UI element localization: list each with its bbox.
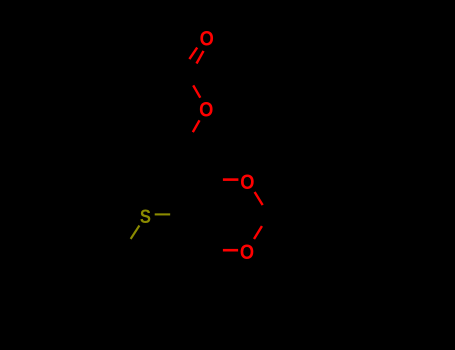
carbonyl C=O double bond, red oxygen halves [189, 48, 197, 60]
bond S-C5, black carbon half [170, 213, 188, 216]
carbonyl C=O double bond, black carbon halves [183, 59, 190, 69]
ring bond C6-O, red oxygen half [223, 249, 238, 252]
ester bond C(=O)-O, red oxygen half [193, 85, 200, 97]
acetyl methyl bond (black, carbon) [147, 70, 187, 73]
ring bond O-C2, red oxygen half (lower) [254, 226, 262, 239]
ring bond C5-C4 (black) [188, 180, 209, 215]
ring bond C4-O, black carbon half [209, 178, 223, 181]
ring bond O-C2, red oxygen half (upper) [255, 192, 263, 205]
bond O-CH2, red oxygen half [193, 120, 200, 132]
ring bond O-C2, black carbon half (lower) [262, 215, 268, 226]
ring bond C4-O, red oxygen half [223, 178, 239, 181]
ring bond O-C2, black carbon half (upper) [263, 205, 268, 215]
bond C2-phenyl ipso (black) [268, 214, 308, 217]
bond CH2-C5 (black) [186, 180, 189, 216]
svg-text:O: O [240, 241, 254, 265]
svg-text:O: O [200, 27, 214, 51]
wire CH2-CH2 chain bond (black) [185, 144, 188, 180]
phenyl inner double bonds (black) [333, 186, 363, 189]
bond S-C5, olive sulfur half [155, 213, 171, 215]
svg-text:O: O [199, 98, 213, 122]
ring bond C5-C6 (black) [188, 215, 207, 250]
svg-text:O: O [240, 170, 254, 194]
bond S-CH3, black carbon half [122, 239, 131, 251]
bond O-CH2, black carbon half [187, 132, 193, 143]
phenyl ring (black) [308, 180, 388, 249]
ring bond C6-O, black carbon half [207, 249, 223, 252]
bond S-CH3, olive sulfur half [131, 226, 140, 240]
ester bond C(=O)-O, black carbon half [187, 71, 194, 85]
svg-text:S: S [140, 204, 151, 227]
